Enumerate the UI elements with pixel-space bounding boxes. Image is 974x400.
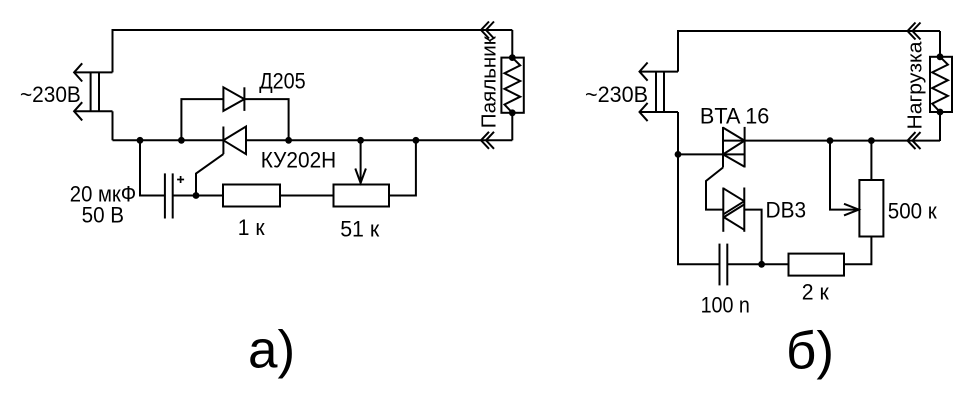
capacitor C1 left plate (164, 173, 166, 218)
connector chevrons on mid rail (right) (908, 132, 916, 149)
wire (load bottom to mid rail) (939, 112, 941, 141)
triac VS2 upper triangle edge (723, 128, 745, 141)
svg-text:б): б) (786, 322, 834, 381)
svg-text:а): а) (248, 321, 295, 380)
plug connector X1 top arrow (74, 63, 82, 81)
wire (plug top lead) (74, 71, 112, 73)
diac VD2 DB3 left bar (722, 188, 724, 232)
plug connector X2 bottom arrow (640, 103, 648, 121)
node (pot wiper) (357, 137, 364, 144)
node (diode branch left) (178, 137, 185, 144)
connector chevrons on top rail (right) (908, 23, 916, 40)
load EK2 (Nagruzka) box (930, 57, 952, 112)
capacitor C1 right lead (173, 195, 196, 197)
capacitor C2 100n left plate (719, 244, 721, 286)
wire (right drop to mid rail) (677, 112, 679, 154)
wire (left drop to mid rail) (112, 111, 114, 140)
node (diode branch right) (285, 137, 292, 144)
svg-text:1 к: 1 к (238, 215, 265, 240)
triac VS2 lower triangle edge (723, 154, 745, 166)
heater EK1 lead from top rail (511, 30, 513, 58)
wire (R3 to pot bottom) (844, 237, 871, 265)
load EK2 lead from top rail (939, 31, 941, 57)
potentiometer R4 wiper arrow (830, 141, 859, 210)
diac right lead down to bottom rail (744, 210, 761, 265)
connector chevrons on mid rail (left) (481, 132, 489, 149)
svg-text:КУ202Н: КУ202Н (261, 148, 336, 173)
diac VD2 lower triangle bottom edge (723, 217, 744, 230)
svg-text:Нагрузка: Нагрузка (903, 41, 926, 130)
wire (plug bottom lead) (640, 111, 679, 113)
plug connector X1 pin bars (90, 72, 92, 111)
node (plug to mid rail junction) (675, 151, 682, 158)
heater EK1 (soldering iron) box (501, 58, 523, 113)
node (heater bottom) (509, 109, 516, 116)
svg-text:~230В: ~230В (585, 82, 648, 107)
wire mid rail right segment (from triac) (723, 140, 940, 142)
load EK2 zigzag element (932, 57, 948, 112)
potentiometer R2 51k box (334, 185, 390, 207)
svg-text:100 n: 100 n (701, 293, 750, 318)
plug connector X2 pin bars (655, 72, 657, 112)
capacitor C1 right plate (172, 173, 174, 218)
svg-text:Паяльник: Паяльник (478, 35, 501, 128)
node (cap branch) (137, 137, 144, 144)
svg-text:50 В: 50 В (82, 203, 125, 228)
wire (left riser to top rail) (113, 30, 513, 72)
resistor R1 1k box (223, 185, 280, 207)
triac VS2 middle shared edge (723, 141, 745, 155)
wire (R1 to R2) (280, 195, 334, 197)
wire (right riser to top rail) (678, 31, 940, 72)
svg-text:~230В: ~230В (20, 82, 81, 107)
triac VS2 right bar (744, 127, 746, 168)
diode D205 triangle (223, 87, 244, 111)
node (heater top) (509, 54, 516, 61)
diac VD2 upper triangle bottom edge (723, 201, 744, 214)
potentiometer R2 wiper arrow (360, 140, 362, 183)
triac gate wire (706, 168, 723, 210)
heater EK1 zigzag element (505, 58, 521, 113)
svg-text:BTA 16: BTA 16 (700, 103, 769, 128)
node (load bottom) (937, 109, 944, 116)
wire mid rail right segment (from thyristor anode) (246, 139, 512, 141)
wire (junction to R1) (196, 195, 223, 197)
node (load top) (937, 53, 944, 60)
wire mid rail left segment (to thyristor cathode bar) (113, 139, 224, 141)
node (diac branch to bottom rail) (758, 261, 765, 268)
svg-text:51 к: 51 к (340, 216, 379, 241)
wire (heater bottom to mid rail) (511, 113, 513, 141)
svg-text:Д205: Д205 (259, 69, 306, 94)
node (gate/cap/resistor junction) (193, 192, 200, 199)
node (pot wiper branch) (827, 137, 834, 144)
wire (R2 right to mid rail) (389, 140, 416, 195)
wire (left drop to bottom rail) (678, 154, 720, 264)
wire (diode to right riser) (244, 99, 288, 140)
svg-text:2 к: 2 к (802, 279, 829, 304)
diode D205 branch left riser (181, 99, 223, 140)
wire (cap to R3) (727, 263, 788, 265)
capacitor C1 left lead (140, 140, 165, 195)
connector chevrons on top rail (left) (481, 22, 489, 39)
capacitor C1 plus sign (177, 179, 184, 181)
plug connector X1 bottom arrow (74, 102, 82, 120)
capacitor C2 100n right plate (726, 244, 728, 286)
triac VS2 BTA16 left bar (722, 127, 724, 168)
thyristor VS1 KU202N cathode bar (222, 127, 224, 155)
diac VD2 right bar (743, 188, 745, 232)
svg-text:500 к: 500 к (888, 199, 937, 224)
wire (plug bottom lead) (74, 110, 112, 112)
thyristor VS1 gate (196, 154, 223, 195)
diode D205 cathode bar (243, 87, 245, 111)
diac VD2 upper triangle top edge (723, 188, 744, 201)
potentiometer R4 500k box (859, 180, 883, 237)
svg-text:DB3: DB3 (766, 198, 807, 223)
potentiometer R4 top lead (870, 141, 872, 180)
plug connector X2 top arrow (640, 63, 648, 81)
diac VD2 lower triangle top edge (723, 204, 744, 217)
node (pot right branch) (413, 137, 420, 144)
node (pot top branch) (868, 137, 875, 144)
resistor R3 2k box (789, 254, 845, 276)
wire (plug top lead) (640, 71, 679, 73)
thyristor VS1 triangle (223, 127, 246, 155)
wire mid rail left segment (to triac) (678, 153, 745, 155)
